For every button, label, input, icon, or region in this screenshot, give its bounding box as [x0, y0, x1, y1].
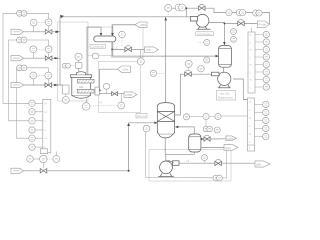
instrument row above drum a [183, 114, 203, 120]
wire overhead line to compressor [60, 16, 191, 18]
node arrow into column right [175, 126, 178, 129]
instrument alarm A1 [29, 100, 43, 106]
wire feed header vertical [59, 17, 61, 85]
instrument on discharge [201, 155, 207, 164]
instrument below side box [62, 94, 69, 103]
valve feed3 [45, 79, 52, 87]
wire cws supply [100, 69, 118, 91]
instrument circles right A [255, 31, 269, 90]
node riser corner [128, 170, 130, 172]
node feed2 junction [55, 57, 59, 59]
node cws arrow into box [98, 88, 101, 91]
vessel condenser drum [94, 36, 116, 42]
svg-text:Condenser: Condenser [92, 44, 105, 48]
component agitator gearbox [75, 62, 82, 72]
manifold B bottom seam [248, 144, 255, 146]
instrument FI1 [30, 19, 37, 31]
wire drum outlet [112, 42, 125, 50]
instrument FC1 [37, 19, 52, 26]
wire left bus 2 [9, 40, 29, 121]
node column feed arrow [154, 122, 157, 125]
instrument top b pair [175, 4, 186, 11]
wire drum return to column [176, 127, 195, 134]
flag cw [145, 47, 159, 53]
wire column feed line [129, 122, 157, 124]
wire d2 right outlet [201, 138, 203, 140]
svg-text:H: H [249, 101, 251, 104]
instrument alarm A6 [29, 144, 43, 150]
instrument above cwr valve [103, 83, 110, 93]
column packing band [157, 112, 174, 122]
reactor coil band upper [78, 79, 95, 83]
svg-text:Vap LiBr: Vap LiBr [220, 92, 230, 96]
wire signal line bottom [146, 177, 213, 179]
flag purge [257, 21, 269, 28]
svg-text:H: H [45, 136, 47, 140]
wire purge line [224, 23, 257, 25]
wire column overhead riser [165, 17, 167, 103]
wire solvent line to riser [24, 125, 129, 171]
svg-text:H: H [250, 64, 252, 67]
instrument on vacuum line [198, 66, 204, 72]
flag solvent feed [11, 168, 24, 173]
frame reactor package [58, 22, 89, 101]
instrument manifold right A [248, 32, 255, 93]
wire column side to vacuum valve [175, 74, 212, 115]
instrument FC3 [37, 72, 52, 79]
column absorber [157, 103, 174, 138]
label compressor [196, 32, 214, 36]
instrument row above drum b [203, 113, 215, 119]
label drum [90, 44, 105, 48]
instrument row above drum c [215, 113, 248, 119]
wire feed1 line [24, 31, 61, 33]
reactor coil band lower [77, 89, 94, 93]
svg-text:H: H [250, 49, 252, 52]
instrument FC2 [37, 46, 52, 53]
svg-text:H: H [249, 117, 251, 120]
instrument under compressor [198, 39, 210, 45]
valve drum level control [125, 45, 132, 51]
wire feed2 signal top [9, 40, 49, 46]
node drum arrow 1 [100, 33, 103, 36]
instrument pair FT1 [17, 10, 27, 16]
svg-text:H: H [250, 79, 252, 82]
instrument at drum top right [214, 127, 220, 133]
label column [136, 114, 147, 118]
valve purge [238, 20, 245, 26]
compressor C1 [190, 14, 210, 29]
node feed1 junction [56, 31, 60, 34]
svg-text:ABS: ABS [140, 23, 146, 27]
svg-text:LC: LC [115, 45, 118, 49]
instrument overhead tap [150, 70, 165, 76]
instrument pair FT3 [17, 65, 27, 71]
node overhead arrow left [60, 15, 64, 18]
wire left bus 1 [3, 13, 29, 103]
instrument pair below b [203, 120, 212, 132]
svg-text:CWs: CWs [122, 67, 129, 71]
instrument alarm A2 [29, 109, 43, 115]
instrument line d pair [236, 10, 246, 16]
instrument top a [165, 4, 172, 15]
instrument above vacuum valve [185, 60, 192, 69]
wire pump discharge [179, 162, 255, 164]
vessel reactor [71, 72, 92, 99]
wire left bus 3 [17, 68, 29, 138]
valve feed1 [45, 26, 52, 34]
component manifold bottom box [40, 149, 47, 154]
wire compressor discharge to v2 [209, 23, 225, 45]
instrument bottom row mid [40, 155, 47, 168]
wire cwr line [99, 93, 124, 95]
svg-text:H: H [249, 133, 251, 136]
valve solvent [40, 169, 47, 174]
wire signal from instrument down [145, 132, 147, 178]
instrument drum right [119, 31, 126, 47]
svg-text:CWR: CWR [125, 93, 133, 97]
instrument pair FT2 [17, 37, 27, 43]
pump P1 [158, 161, 179, 177]
node overhead arrow up [164, 17, 167, 20]
valve product [215, 159, 222, 165]
wire column bottoms header [165, 138, 194, 154]
wire d2 second outlet [201, 146, 224, 148]
instrument pair bottom right [213, 175, 222, 181]
vessel V2 [219, 46, 232, 68]
label blower [217, 91, 236, 101]
flag vent [224, 145, 238, 151]
wire feed3 signal top [17, 68, 49, 72]
wire feed2 line [24, 57, 61, 59]
wire bypass down [185, 8, 187, 17]
instrument pair reactor [62, 63, 75, 68]
instrument alarm A3 [29, 118, 43, 124]
valve vacuum [185, 70, 192, 76]
instrument agitator motor [75, 53, 82, 62]
instrument below cw line [137, 49, 144, 65]
wire drum to stripper vessel [112, 49, 215, 56]
wire reactor vapor to condenser [87, 27, 101, 75]
instrument bottom row left [27, 156, 40, 163]
flag feed1 [11, 29, 24, 34]
node arrow into v2 top [223, 42, 226, 45]
node riser arrow up [127, 123, 130, 126]
frame cooler package [99, 62, 141, 113]
svg-text:Regenerator: Regenerator [218, 96, 233, 100]
flag cws2 [226, 136, 236, 141]
wire feed3 line [24, 84, 63, 86]
svg-text:LiBr...: LiBr... [256, 162, 264, 166]
blower B2 [212, 72, 231, 88]
flag cwr [124, 92, 137, 97]
component reactor side box [63, 85, 69, 94]
instrument on cwr dropleg [118, 94, 125, 109]
svg-text:H: H [45, 102, 47, 106]
svg-text:Abs: Abs [79, 85, 84, 89]
wire d2 bottom outlet [193, 152, 195, 154]
svg-text:CW: CW [146, 48, 151, 52]
instrument ellipse between reactor and drum [92, 53, 99, 59]
instrument bottom row right [47, 152, 60, 163]
component coil nozzle box [95, 87, 99, 95]
instrument reactor bottom [82, 99, 90, 111]
instrument FI3 [30, 72, 37, 85]
valve feed2 [45, 53, 52, 61]
wire abs to drum [113, 25, 136, 36]
wire feed1 signal top [3, 13, 49, 19]
svg-text:Purge: Purge [258, 23, 266, 27]
instrument alarm A4 [29, 127, 43, 133]
vessel knockout drum D2 [189, 134, 201, 152]
flag product [255, 161, 270, 167]
frame cw package [112, 25, 144, 58]
wire pump suction [165, 154, 167, 161]
svg-text:Abs Col: Abs Col [137, 114, 147, 118]
wire compressor discharge top line [165, 8, 270, 24]
frame pump package [149, 150, 231, 182]
svg-text:H: H [45, 110, 47, 114]
svg-text:Vent: Vent [225, 146, 231, 150]
valve compressor discharge [198, 4, 205, 10]
flag feed2 [11, 56, 24, 61]
instrument stack right b [231, 36, 237, 42]
flag feed3 [11, 82, 24, 87]
node feed3 junction arrow [54, 84, 58, 86]
instrument manifold right B [248, 98, 255, 151]
svg-text:H: H [250, 34, 252, 37]
wire v2 to blower [223, 67, 225, 72]
wire valve to flag [210, 138, 226, 140]
instrument alarm A5 [29, 135, 43, 141]
node arrow to valve [201, 138, 204, 141]
flag abs vapor [135, 22, 147, 27]
instrument line e pair [253, 10, 262, 16]
wire blower discharge to manifold B [233, 79, 247, 100]
wire vent drop and signal loop [222, 150, 226, 178]
wire dashed between reactor instruments [90, 105, 118, 107]
instrument circles right B [255, 101, 269, 139]
valve cwr [112, 92, 118, 96]
wire valve to cw flag [132, 48, 145, 50]
svg-text:Compressor: Compressor [197, 32, 211, 36]
instrument col feed [143, 125, 150, 132]
instrument manifold left [43, 99, 51, 153]
instrument line c [226, 10, 232, 16]
instrument stack right a [231, 29, 237, 35]
node arrow into v2 [216, 55, 219, 58]
instrument left of v2 [204, 57, 210, 63]
svg-text:CWS: CWS [227, 137, 234, 141]
valve d2 [204, 135, 210, 141]
node drum arrow 2 [111, 33, 114, 36]
flag cws [118, 66, 131, 72]
instrument FI2 [30, 46, 37, 58]
frame condenser-drum package [88, 27, 113, 56]
